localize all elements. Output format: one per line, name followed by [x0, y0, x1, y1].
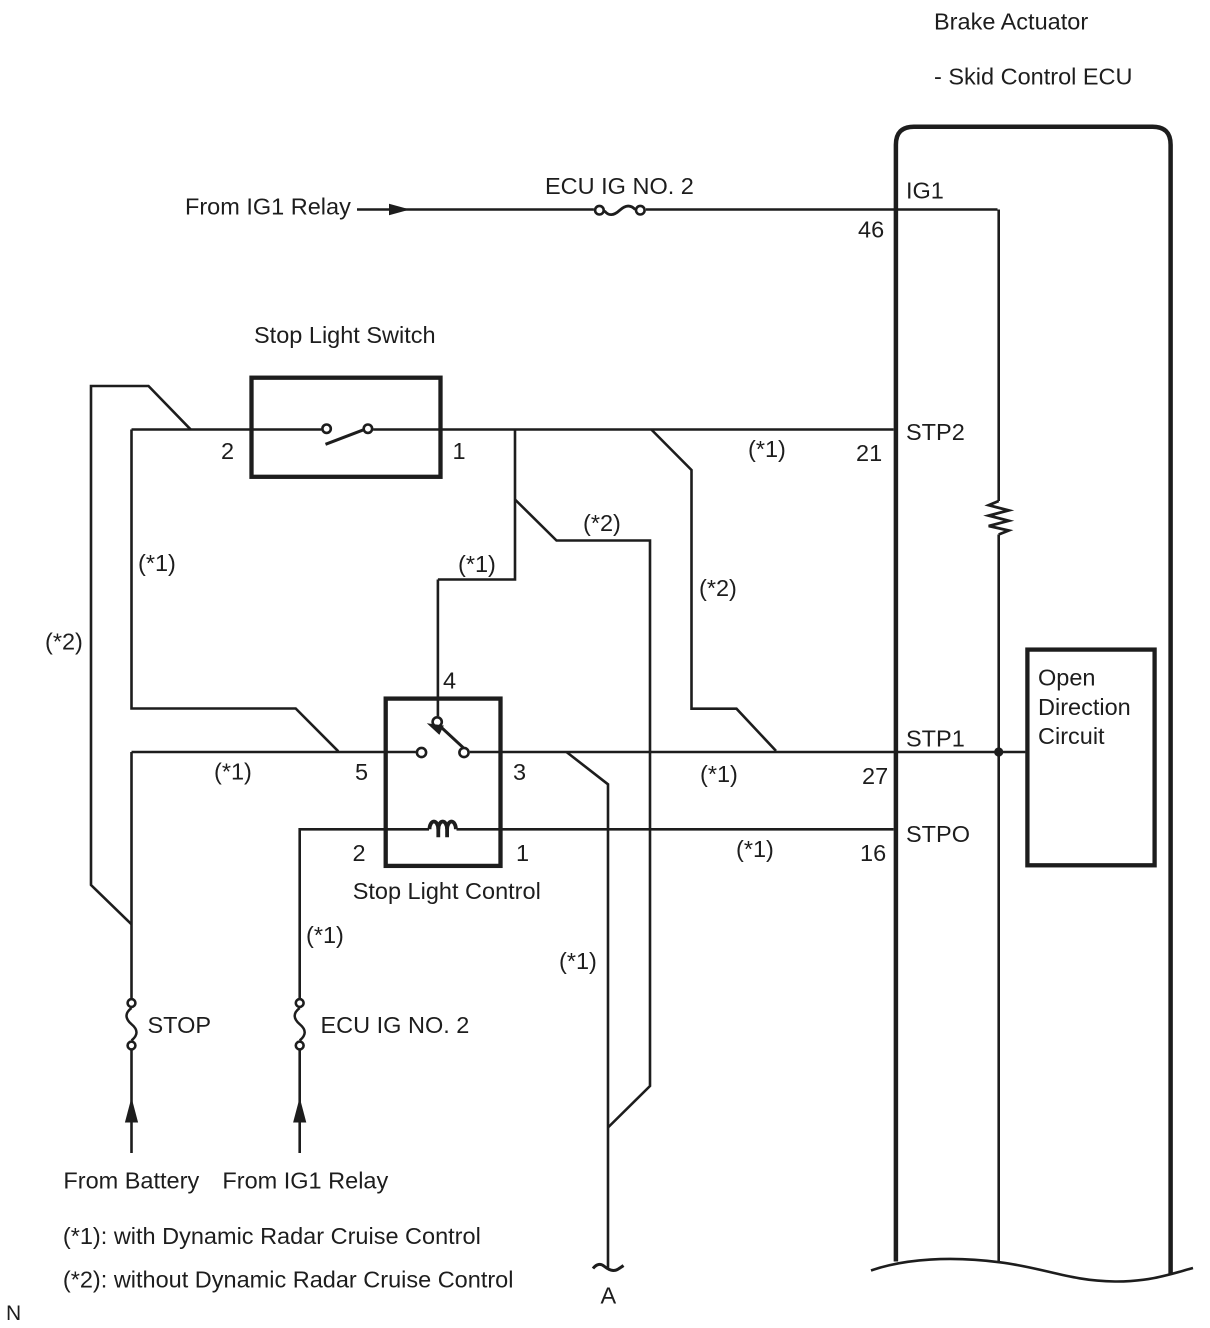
Stop Light Switch box: [252, 378, 441, 477]
fuse ECU IG NO. 2 (bottom): [296, 999, 304, 1007]
arrow up (from IG1 relay): [293, 1098, 306, 1123]
wire STOP branch vertical: [130, 752, 133, 998]
resistor (pull-up inside ECU): [989, 501, 1009, 535]
svg-text:(*1): (*1): [736, 836, 774, 862]
wire diagonal STP1 to node A line: [567, 752, 609, 1269]
STP2 wire right segment (pin 1 side to ECU): [373, 428, 894, 431]
node A break squiggle: [593, 1264, 624, 1270]
svg-text:46: 46: [858, 217, 884, 243]
wire (*2) right branch from STP2 to STP1: [651, 430, 776, 751]
svg-text:(*2): without Dynamic Radar Cr: (*2): without Dynamic Radar Cruise Contr…: [63, 1266, 514, 1292]
svg-text:2: 2: [353, 840, 366, 866]
svg-text:STPO: STPO: [906, 821, 970, 847]
svg-text:Stop Light Switch: Stop Light Switch: [254, 322, 436, 348]
svg-text:(*2): (*2): [45, 629, 83, 655]
ECU Brake Actuator body outline: [896, 127, 1171, 1275]
relay contact left (pin 5): [417, 748, 426, 757]
wire resistor to bottom: [997, 535, 1000, 1264]
svg-text:Direction: Direction: [1038, 694, 1131, 720]
fuse ECU IG NO. 2 (top): [595, 206, 604, 215]
wire pin 4 vertical: [437, 580, 440, 717]
switch contact right: [364, 425, 372, 433]
svg-text:1: 1: [516, 840, 529, 866]
junction dot STP1/resistor: [994, 747, 1003, 756]
wire (*1) left vertical with jog to pin 5: [132, 430, 339, 752]
svg-text:(*1): (*1): [306, 922, 344, 948]
wire IG1 vertical to resistor: [997, 210, 1000, 502]
svg-text:16: 16: [860, 840, 886, 866]
switch blade: [326, 430, 364, 445]
svg-text:5: 5: [355, 759, 368, 785]
relay coil: [430, 821, 456, 829]
svg-text:A: A: [601, 1283, 617, 1309]
svg-text:- Skid Control ECU: - Skid Control ECU: [934, 64, 1133, 90]
relay contact right (pin 3): [459, 748, 468, 757]
wire from IG1 relay to fuse: [357, 208, 594, 211]
wire branch x515 from STP2: [438, 430, 515, 580]
svg-text:3: 3: [513, 759, 526, 785]
svg-text:2: 2: [221, 438, 234, 464]
wire pin 2 to ECU IG NO.2 fuse: [300, 829, 386, 998]
switch contact left: [322, 425, 330, 433]
svg-text:(*1): (*1): [458, 551, 496, 577]
svg-text:Stop Light Control: Stop Light Control: [353, 878, 541, 904]
relay box Stop Light Control: [386, 699, 501, 866]
svg-text:(*1): (*1): [559, 948, 597, 974]
relay blade: [442, 728, 463, 748]
svg-text:Open: Open: [1038, 665, 1096, 691]
svg-text:(*1): (*1): [700, 761, 738, 787]
svg-text:1: 1: [453, 438, 466, 464]
svg-text:STOP: STOP: [148, 1012, 212, 1038]
svg-text:(*1): (*1): [138, 550, 176, 576]
svg-text:From Battery: From Battery: [63, 1168, 199, 1194]
svg-text:From IG1 Relay: From IG1 Relay: [185, 194, 351, 220]
fuse STOP: [128, 999, 136, 1007]
svg-text:From IG1 Relay: From IG1 Relay: [222, 1168, 388, 1194]
svg-text:IG1: IG1: [906, 177, 944, 203]
ECU torn bottom edge: [871, 1259, 1193, 1282]
wire below STOP fuse: [130, 1051, 133, 1154]
Open Direction Circuit box: [1027, 650, 1154, 866]
wire STP1 pin5/pin3 run: [132, 751, 416, 754]
svg-text:(*2): (*2): [583, 510, 621, 536]
svg-text:(*2): (*2): [699, 575, 737, 601]
arrow up (from battery): [125, 1098, 138, 1123]
wire below bottom fuse: [298, 1051, 301, 1154]
svg-text:Brake Actuator: Brake Actuator: [934, 9, 1088, 35]
relay blade arrowhead: [427, 723, 444, 735]
svg-text:STP2: STP2: [906, 419, 965, 445]
svg-text:21: 21: [856, 440, 882, 466]
svg-text:(*1): (*1): [214, 759, 252, 785]
wire (*2) jog from x515 to x650: [515, 500, 650, 1128]
svg-text:Circuit: Circuit: [1038, 723, 1105, 749]
svg-text:(*1): (*1): [748, 436, 786, 462]
svg-text:4: 4: [443, 668, 456, 694]
coil wire right inside box: [457, 828, 501, 831]
wire fuse to ECU pin IG1: [646, 208, 998, 211]
svg-text:27: 27: [862, 763, 888, 789]
svg-text:STP1: STP1: [906, 726, 965, 752]
wire STPO from relay pin 1 to ECU: [501, 828, 894, 831]
pin 4 coil wire left: [386, 828, 429, 831]
wire (*2) top-left jog: [91, 386, 191, 924]
arrow on IG1 wire: [389, 204, 410, 215]
svg-text:ECU IG NO. 2: ECU IG NO. 2: [545, 173, 694, 199]
svg-text:ECU IG NO. 2: ECU IG NO. 2: [321, 1012, 470, 1038]
STP2 wire left segment (pin 2 side): [132, 428, 322, 431]
svg-text:(*1): with Dynamic Radar Cruis: (*1): with Dynamic Radar Cruise Control: [63, 1223, 481, 1249]
svg-text:N: N: [6, 1302, 21, 1325]
relay contact top (pin 4): [433, 717, 442, 726]
